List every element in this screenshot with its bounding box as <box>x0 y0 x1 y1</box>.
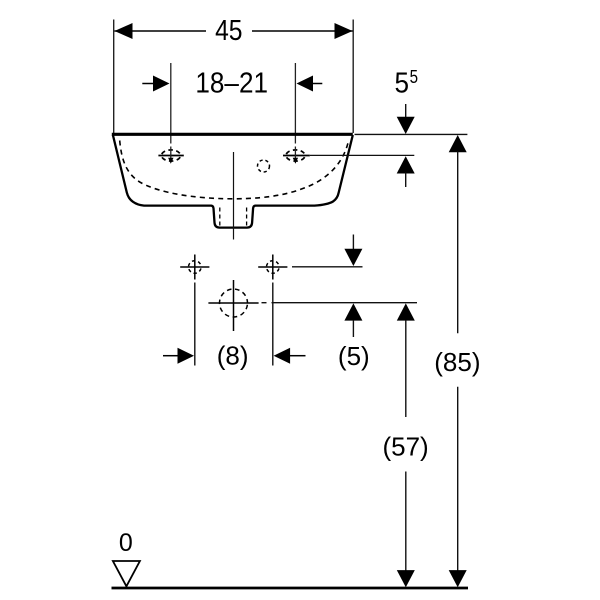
svg-text:5: 5 <box>410 67 418 88</box>
svg-text:0: 0 <box>119 529 133 557</box>
svg-text:(8): (8) <box>217 341 249 371</box>
svg-text:(85): (85) <box>434 347 480 377</box>
svg-text:18–21: 18–21 <box>195 66 268 99</box>
svg-text:45: 45 <box>215 14 242 46</box>
svg-text:(57): (57) <box>382 432 428 462</box>
svg-text:5: 5 <box>395 66 410 99</box>
svg-text:(5): (5) <box>338 341 370 371</box>
